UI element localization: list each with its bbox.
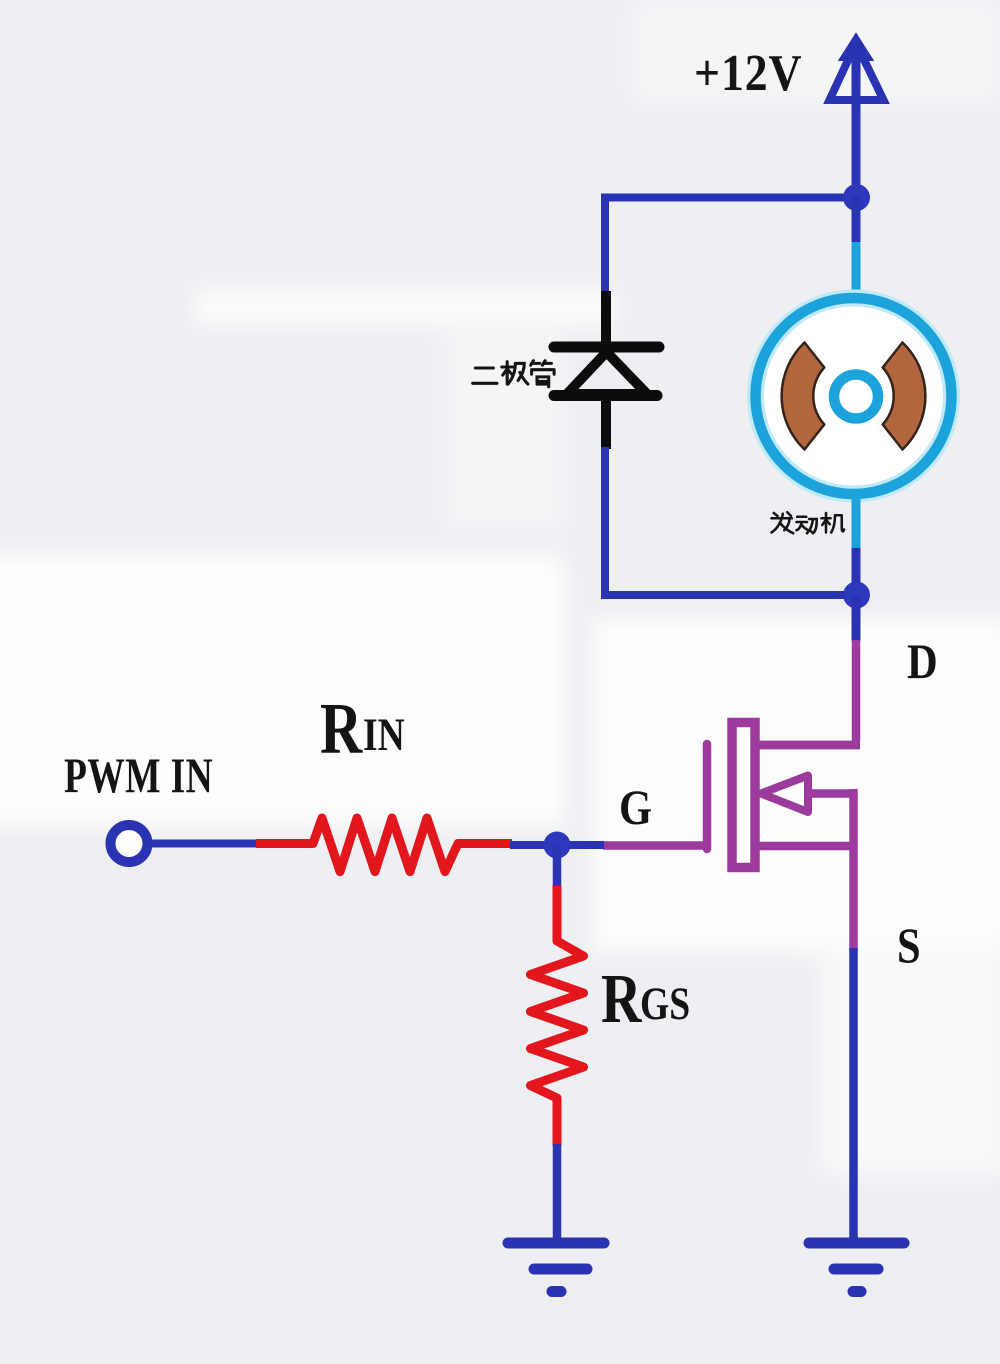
wire: resistor to gate node (blue) <box>510 841 604 849</box>
动 <box>797 517 817 534</box>
transistor Q1 source stub <box>755 842 857 851</box>
svg-text:G: G <box>619 781 652 836</box>
svg-text:R: R <box>320 689 363 770</box>
wire: RGS bottom lead (blue) <box>553 1144 562 1245</box>
极 <box>502 362 528 385</box>
管 <box>531 361 554 387</box>
发 <box>772 512 794 533</box>
svg-text:+12V: +12V <box>694 43 802 101</box>
diode D1 anode bar <box>554 390 657 401</box>
diode D1 top lead (black) <box>601 291 611 352</box>
diode D1 bottom lead (black) <box>601 395 611 449</box>
transistor Q1 gate lead (purple) <box>603 841 707 850</box>
wire: motor bottom lead (cyan) <box>852 494 861 549</box>
wire: source vertical (blue part) <box>849 948 858 1245</box>
svg-text:GS: GS <box>640 978 690 1030</box>
ground right <box>809 1243 904 1292</box>
wire: diode bottom L to junction (blue) <box>601 447 845 595</box>
wire: input lead (blue) <box>148 840 257 848</box>
wire: drain lead (purple L) <box>757 640 860 745</box>
power symbol +12V arrow <box>830 35 884 100</box>
diode D1 triangle <box>567 352 647 394</box>
terminal: PWM input ring <box>111 825 148 862</box>
svg-text:IN: IN <box>363 709 405 761</box>
label 二极管 (diode) drawn strokes <box>473 361 554 387</box>
wire: junction to drain (blue part) <box>852 595 861 641</box>
wire: junction down to motor (blue part) <box>852 197 861 243</box>
motor M1 outer circle <box>756 298 952 494</box>
node: gate junction <box>544 832 571 859</box>
transistor Q1 drain stub <box>755 741 860 750</box>
机 <box>822 513 845 533</box>
transistor Q1 body arrow head <box>761 776 808 813</box>
motor M1 right brush <box>883 343 926 450</box>
svg-text:PWM IN: PWM IN <box>64 748 213 803</box>
transistor Q1 body arrow line <box>806 789 857 798</box>
node: top junction <box>843 184 870 211</box>
svg-text:D: D <box>907 635 938 690</box>
svg-text:S: S <box>897 919 921 974</box>
motor M1 inner hub <box>834 375 878 419</box>
wire: motor bottom (blue part) <box>852 548 861 596</box>
resistor RIN <box>256 818 512 872</box>
wire: source vertical (purple part) <box>849 789 858 950</box>
wire: diode top lead (blue) <box>601 198 609 294</box>
wire: motor top lead (cyan) <box>852 242 861 298</box>
motor M1 left brush <box>782 343 825 450</box>
diode D1 cathode bar <box>554 342 659 353</box>
wire: +12V stem <box>852 54 861 197</box>
node: bottom junction <box>843 582 870 609</box>
transistor Q1 channel plate <box>732 723 755 868</box>
transistor Q1 gate electrode <box>703 744 712 849</box>
label 发动机 (motor) drawn strokes <box>772 512 845 533</box>
wire: RGS top lead (blue) <box>553 845 562 888</box>
二 <box>473 368 497 383</box>
wire: top horizontal (junction to diode branch) <box>601 194 856 202</box>
resistor RGS <box>531 886 584 1146</box>
svg-text:R: R <box>601 960 643 1037</box>
ground left <box>508 1243 604 1292</box>
